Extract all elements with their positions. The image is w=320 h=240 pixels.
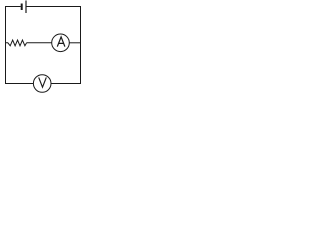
wire top-left segment (6, 6, 21, 8)
resistor R1 zigzag (6, 40, 27, 46)
ammeter A label (57, 37, 65, 47)
wire resistor to ammeter (27, 42, 52, 44)
wire bottom-left segment (6, 83, 34, 85)
wire bottom-right segment (51, 83, 81, 85)
wire ammeter to right vertical (69, 42, 80, 44)
ammeter A circle (52, 34, 70, 52)
voltmeter V circle (33, 75, 51, 93)
battery B1 tall thin plate (positive) (25, 1, 27, 14)
battery B1 short thick plate (negative) (21, 4, 23, 11)
wire left vertical (5, 6, 7, 84)
voltmeter V label (39, 77, 47, 87)
wire top-right segment (26, 6, 81, 8)
wire right vertical (80, 6, 82, 84)
